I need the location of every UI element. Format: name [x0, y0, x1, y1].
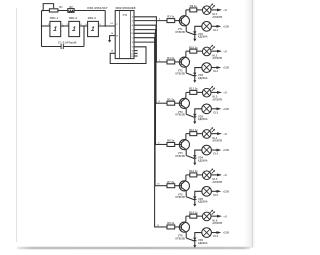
- wire base: [175, 61, 182, 63]
- svg-text:КД209А: КД209А: [198, 201, 208, 204]
- svg-text:АЛ307Б: АЛ307Б: [212, 98, 222, 101]
- wire collector up: [185, 175, 187, 180]
- lamp EL1: [202, 22, 212, 32]
- svg-text:КТ815Б: КТ815Б: [176, 114, 186, 117]
- wire: DD1.3 out to DD2 pin14: [98, 25, 115, 27]
- wire base: [175, 102, 182, 104]
- svg-text:2: 2: [132, 21, 134, 23]
- lamp EL6: [202, 228, 212, 238]
- svg-text:EL6: EL6: [213, 235, 218, 238]
- wire lamp branch: [195, 191, 202, 196]
- svg-text:+U: +U: [223, 132, 227, 136]
- wire lamp branch: [195, 68, 202, 73]
- svg-text:14: 14: [110, 22, 113, 25]
- node: [63, 25, 65, 27]
- wire to +U: [211, 215, 217, 217]
- svg-text:4: 4: [132, 24, 134, 27]
- wire lamp branch: [195, 233, 202, 238]
- svg-text:6: 6: [132, 47, 134, 49]
- svg-text:АЛ307Б: АЛ307Б: [212, 140, 222, 143]
- wire to +12V: [211, 149, 216, 151]
- wire collector up: [185, 216, 187, 221]
- svg-text:+U: +U: [223, 91, 227, 95]
- wire: DD2 output 3 bus drop to stage 4: [134, 29, 156, 31]
- wire to +12V: [211, 108, 216, 110]
- svg-text:КТ815Б: КТ815Б: [176, 155, 186, 158]
- wire emitter down: [185, 150, 187, 156]
- wire to +12V: [211, 67, 216, 69]
- wire: DD1.1 input stub: [42, 25, 50, 27]
- wire to +U: [211, 174, 217, 176]
- lamp EL4: [202, 145, 212, 155]
- LED HL3: [202, 88, 211, 97]
- wire to +12V: [211, 190, 216, 192]
- svg-text:13: 13: [111, 33, 114, 35]
- pin 15 reset loop: [110, 47, 146, 64]
- svg-text:АЛ307Б: АЛ307Б: [212, 57, 222, 60]
- svg-text:3: 3: [132, 17, 134, 19]
- wire: DD2 output 2 bus drop to stage 3: [134, 24, 156, 26]
- wire: DD2 output 4 bus drop to stage 5: [134, 32, 155, 34]
- transistor VT1: [179, 16, 189, 26]
- wire: DD2 out pin2 straight to stage 1: [134, 20, 167, 22]
- wire: [197, 9, 203, 11]
- wire: output row 7: [134, 41, 156, 43]
- node: DD1.2 output / C1 tap: [83, 25, 85, 27]
- svg-text:DD2 К561ИЕ8: DD2 К561ИЕ8: [115, 6, 135, 10]
- transistor VT4: [179, 140, 189, 150]
- svg-text:+12В: +12В: [223, 149, 229, 152]
- wire: DD2 output 5 bus drop to stage 6: [134, 37, 155, 39]
- wire: C1 tap drop: [83, 26, 85, 47]
- svg-text:1: 1: [53, 26, 58, 33]
- wire emitter down: [185, 191, 187, 197]
- svg-text:EL1: EL1: [213, 29, 218, 32]
- svg-text:1: 1: [90, 26, 95, 33]
- wire base: [175, 143, 182, 145]
- wire to +U: [211, 50, 217, 52]
- wire: DD2 output 0 bus drop to stage 2: [134, 16, 156, 18]
- LED HL4: [202, 130, 211, 139]
- lamp EL5: [202, 187, 212, 197]
- svg-text:R1: R1: [59, 6, 63, 9]
- pin 13 stub to ground: [110, 36, 116, 41]
- transistor VT5: [179, 181, 189, 191]
- capacitor C1: [60, 44, 62, 49]
- svg-text:EL4: EL4: [213, 153, 218, 156]
- wire lamp branch: [195, 26, 202, 31]
- LED HL2: [202, 47, 211, 56]
- svg-text:КТ815Б: КТ815Б: [176, 31, 186, 34]
- svg-text:+12В: +12В: [223, 25, 229, 28]
- svg-text:1: 1: [72, 26, 77, 33]
- diode VD3: [193, 114, 196, 117]
- diode VD4: [193, 155, 196, 158]
- transistor VT6: [179, 222, 189, 232]
- svg-text:EL2: EL2: [213, 70, 218, 73]
- svg-text:КТ815Б: КТ815Б: [176, 237, 186, 240]
- wire lamp branch: [195, 150, 202, 155]
- lamp EL2: [202, 63, 212, 73]
- svg-text:+U: +U: [223, 49, 227, 53]
- wire: [197, 215, 203, 217]
- svg-text:КТ815Б: КТ815Б: [176, 72, 186, 75]
- svg-text:DD1 К561ЛА7: DD1 К561ЛА7: [87, 6, 107, 10]
- wire: top rail drop to DD1.3 output: [104, 11, 106, 27]
- svg-text:9: 9: [132, 51, 134, 53]
- svg-text:1: 1: [132, 38, 134, 40]
- svg-text:КД209А: КД209А: [198, 36, 208, 39]
- wire emitter down: [185, 26, 187, 32]
- wire collector up: [185, 51, 187, 56]
- wire emitter down: [185, 232, 187, 238]
- svg-text:C: C: [116, 24, 118, 26]
- LED HL6: [202, 212, 211, 221]
- resistor R1 (rheostat): [49, 9, 58, 12]
- wire base: [175, 20, 182, 22]
- diode VD1: [193, 31, 196, 34]
- diode VD2: [193, 73, 196, 76]
- wire emitter down: [185, 109, 187, 115]
- svg-text:DD1.2: DD1.2: [69, 16, 78, 20]
- wire lamp branch: [195, 109, 202, 114]
- LED HL5: [202, 171, 211, 180]
- ground: [108, 40, 110, 42]
- wire: top RC feedback rail: [42, 10, 50, 12]
- svg-text:КД209А: КД209А: [198, 77, 208, 80]
- svg-text:+12В: +12В: [223, 108, 229, 111]
- wire emitter down: [185, 67, 187, 73]
- resistor R2: [68, 9, 74, 13]
- diode VD6: [193, 238, 196, 241]
- svg-text:+12В: +12В: [223, 190, 229, 193]
- LED HL1: [202, 6, 211, 15]
- transistor VT3: [179, 98, 189, 108]
- node: junction top rail / DD1.3 out: [104, 25, 106, 27]
- transistor VT2: [179, 57, 189, 67]
- svg-text:+U: +U: [223, 214, 227, 218]
- wire: left rail of oscillator: [41, 11, 43, 47]
- lamp EL3: [202, 104, 212, 114]
- svg-text:CT2: CT2: [123, 15, 128, 17]
- svg-text:EL5: EL5: [213, 194, 218, 197]
- wire to +12V: [211, 25, 216, 27]
- wire collector up: [185, 92, 187, 97]
- node: DD1.1 input: [41, 25, 43, 27]
- diode VD5: [193, 196, 196, 199]
- wire: [197, 133, 203, 135]
- svg-text:7: 7: [132, 30, 134, 32]
- wire: bottom feedback rail: [42, 46, 62, 48]
- wire: DD1.1 out to DD1.2 in: [61, 25, 69, 27]
- svg-text:DD1.1: DD1.1: [50, 16, 59, 20]
- svg-text:КТ815Б: КТ815Б: [176, 196, 186, 199]
- svg-text:15: 15: [111, 51, 114, 53]
- wire to +12V: [211, 232, 216, 234]
- wire collector up: [185, 134, 187, 139]
- svg-text:+U: +U: [223, 173, 227, 177]
- svg-text:DD1.3: DD1.3: [88, 16, 97, 20]
- svg-text:КД209А: КД209А: [198, 159, 208, 162]
- svg-text:АЛ307Б: АЛ307Б: [212, 181, 222, 184]
- svg-text:АЛ307Б: АЛ307Б: [212, 222, 222, 225]
- svg-text:EL3: EL3: [213, 111, 218, 114]
- wire collector up: [185, 10, 187, 15]
- svg-text:5: 5: [132, 42, 134, 44]
- unused output stubs: [134, 50, 138, 52]
- wire to +U: [211, 133, 217, 135]
- svg-text:+U: +U: [223, 8, 227, 12]
- wire: [197, 91, 203, 93]
- svg-text:С1 0,047мкФ: С1 0,047мкФ: [58, 40, 77, 44]
- wire base: [175, 226, 182, 228]
- wire: DD1.2 out to DD1.3 in: [80, 25, 88, 27]
- wire: [197, 50, 203, 52]
- wire to +U: [211, 91, 217, 93]
- svg-text:АЛ307Б: АЛ307Б: [212, 16, 222, 19]
- wire to +U: [211, 9, 217, 11]
- svg-text:+12В: +12В: [223, 67, 229, 70]
- svg-text:КД209А: КД209А: [198, 242, 208, 245]
- svg-text:R: R: [116, 36, 118, 38]
- wire: [197, 174, 203, 176]
- svg-text:+12В: +12В: [223, 232, 229, 235]
- wire base: [175, 185, 182, 187]
- svg-text:КД209А: КД209А: [198, 118, 208, 121]
